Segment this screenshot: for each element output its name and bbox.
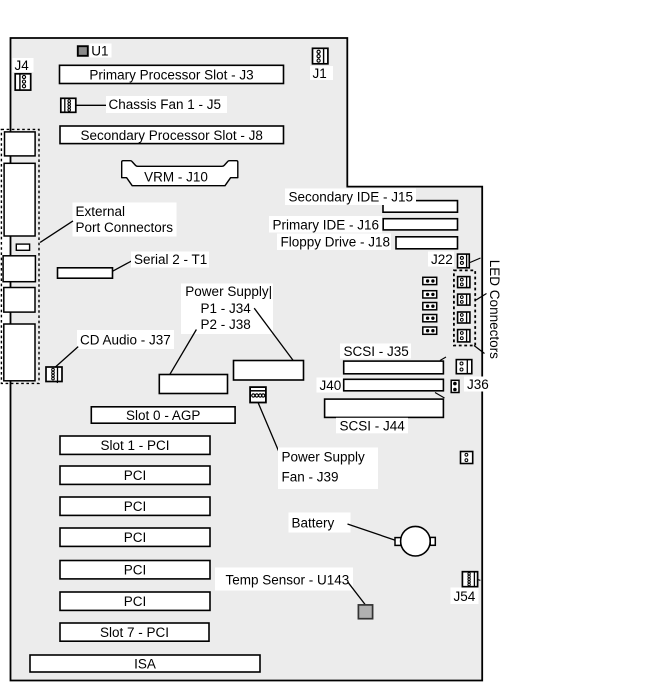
connector J18 xyxy=(396,237,458,249)
label Chassis Fan 1 - J5 xyxy=(106,96,227,113)
leader line J22 xyxy=(470,258,481,263)
label Battery xyxy=(289,513,351,533)
external port connectors dashed box xyxy=(1,129,39,383)
svg-text:Primary IDE - J16: Primary IDE - J16 xyxy=(273,217,380,232)
connector above J36 xyxy=(456,360,472,374)
connector J37 cd audio xyxy=(46,367,62,383)
leader line P2 xyxy=(254,308,293,360)
LED connector 1 xyxy=(458,277,470,288)
temp sensor U143 xyxy=(358,605,372,619)
svg-text:Primary Processor Slot - J3: Primary Processor Slot - J3 xyxy=(89,67,253,82)
battery right tab xyxy=(430,537,435,545)
connector J35 xyxy=(344,361,444,374)
svg-text:P2 - J38: P2 - J38 xyxy=(201,317,251,332)
connector J4 xyxy=(15,74,31,90)
leader line J39 xyxy=(258,402,281,456)
connector J40 xyxy=(344,379,444,391)
label J40 xyxy=(317,378,344,394)
external port box 3 xyxy=(3,256,35,282)
svg-text:LED Connectors: LED Connectors xyxy=(487,260,502,359)
LED connector 4 xyxy=(458,330,470,342)
svg-text:J40: J40 xyxy=(320,378,342,393)
LED connectors dashed box xyxy=(454,270,475,345)
motherboard outline xyxy=(11,38,483,681)
svg-text:Slot 0 - AGP: Slot 0 - AGP xyxy=(126,408,200,423)
slot 3 PCI xyxy=(60,497,210,515)
leader line J5 xyxy=(76,104,108,106)
chip U1 xyxy=(78,46,88,56)
external port box 5 xyxy=(4,324,35,381)
jumper 1 xyxy=(423,277,437,284)
slot 5 PCI xyxy=(60,561,210,579)
svg-text:SCSI - J44: SCSI - J44 xyxy=(340,418,406,433)
connector J15 xyxy=(383,201,458,213)
serial 2 T1 rectangle xyxy=(58,268,113,278)
svg-text:PCI: PCI xyxy=(124,530,147,545)
connector J1 xyxy=(313,48,328,64)
label Power Supply Fan - J39 xyxy=(278,448,378,490)
label Floppy Drive - J18 xyxy=(277,234,391,251)
svg-text:Port Connectors: Port Connectors xyxy=(76,220,174,235)
label SCSI - J35 xyxy=(340,344,411,360)
power supply fan connector J39 xyxy=(250,387,266,402)
leader line LED upper xyxy=(476,294,487,301)
leader tick J35 xyxy=(440,357,446,361)
svg-text:Secondary IDE - J15: Secondary IDE - J15 xyxy=(289,190,414,205)
external port box 4 xyxy=(4,288,35,313)
label J1 xyxy=(310,66,333,81)
slot 2 PCI xyxy=(60,466,210,484)
external port box 1 xyxy=(5,132,36,156)
svg-text:P1 - J34: P1 - J34 xyxy=(201,301,252,316)
connector J5 chassis fan xyxy=(61,98,76,112)
svg-text:J22: J22 xyxy=(431,252,453,267)
label J54 xyxy=(451,588,479,605)
connector J54 xyxy=(462,572,480,587)
svg-text:Power Supply: Power Supply xyxy=(282,449,366,464)
label Serial 2 - T1 xyxy=(131,252,209,268)
slot ISA xyxy=(30,655,260,672)
jumper 4 xyxy=(423,315,437,322)
svg-text:Temp Sensor - U143: Temp Sensor - U143 xyxy=(226,573,350,588)
svg-text:Power Supply|: Power Supply| xyxy=(185,284,272,299)
svg-text:PCI: PCI xyxy=(124,499,147,514)
leader line serial xyxy=(112,260,132,271)
slot 4 PCI xyxy=(60,528,210,546)
label Primary IDE - J16 xyxy=(269,216,382,233)
label Power Supply P1 P2 xyxy=(181,284,273,335)
svg-text:J1: J1 xyxy=(313,66,327,81)
svg-text:Floppy Drive - J18: Floppy Drive - J18 xyxy=(281,234,391,249)
slot 6 PCI xyxy=(60,592,210,610)
jumper 3 xyxy=(423,303,437,310)
label J4 xyxy=(13,58,34,73)
svg-text:SCSI - J35: SCSI - J35 xyxy=(344,344,409,359)
svg-text:J36: J36 xyxy=(467,377,489,392)
svg-text:Fan - J39: Fan - J39 xyxy=(282,469,339,484)
LED connector 2 xyxy=(458,294,470,305)
connector J16 xyxy=(383,219,457,230)
slot J3 primary processor xyxy=(60,65,284,83)
battery circle xyxy=(401,526,431,556)
svg-text:Secondary Processor Slot - J8: Secondary Processor Slot - J8 xyxy=(81,128,263,143)
svg-text:ISA: ISA xyxy=(134,656,156,671)
jumper 2 xyxy=(423,291,437,298)
svg-text:Serial 2 - T1: Serial 2 - T1 xyxy=(134,252,207,267)
svg-text:PCI: PCI xyxy=(124,468,147,483)
label J22 xyxy=(428,252,454,268)
svg-text:External: External xyxy=(76,204,126,219)
label External Port Connectors xyxy=(73,203,177,237)
power supply P2 connector J38 xyxy=(234,361,304,381)
svg-text:CD Audio - J37: CD Audio - J37 xyxy=(80,332,171,347)
connector J22 xyxy=(458,254,470,268)
svg-text:Slot 7 - PCI: Slot 7 - PCI xyxy=(100,625,169,640)
svg-text:Chassis Fan 1 - J5: Chassis Fan 1 - J5 xyxy=(109,97,222,112)
label CD Audio - J37 xyxy=(77,330,174,349)
external port box 2 xyxy=(4,163,35,236)
slot 7 PCI xyxy=(60,623,209,641)
svg-text:J54: J54 xyxy=(454,589,476,604)
leader line LED lower xyxy=(474,346,485,354)
leader line J37 xyxy=(55,347,78,367)
svg-text:PCI: PCI xyxy=(124,563,147,578)
label Secondary IDE - J15 xyxy=(285,189,416,206)
slot 1 PCI xyxy=(60,436,210,454)
battery left tab xyxy=(395,538,401,546)
connector unlabeled right xyxy=(461,452,473,464)
connector J44 xyxy=(325,399,444,417)
leader line external ports xyxy=(40,221,73,243)
svg-text:J4: J4 xyxy=(15,58,30,73)
svg-text:Battery: Battery xyxy=(292,516,335,531)
jumper 5 xyxy=(423,327,437,334)
VRM slot J10 xyxy=(122,161,238,186)
slot J8 secondary processor xyxy=(60,126,284,144)
svg-text:VRM - J10: VRM - J10 xyxy=(144,169,208,184)
LED connector 3 xyxy=(458,312,470,323)
label J36 xyxy=(464,377,491,393)
connector J36 xyxy=(451,380,459,392)
leader line P1 xyxy=(170,330,197,375)
leader tick J40 xyxy=(435,393,445,399)
slot 0 AGP xyxy=(91,407,235,423)
svg-text:Slot 1 - PCI: Slot 1 - PCI xyxy=(100,438,169,453)
svg-text:U1: U1 xyxy=(91,43,108,58)
leader line temp sensor xyxy=(348,582,366,605)
svg-text:PCI: PCI xyxy=(124,594,147,609)
label Temp Sensor - U143 xyxy=(215,568,353,591)
power supply P1 connector J34 xyxy=(159,375,227,394)
external port small box xyxy=(16,244,29,250)
label SCSI - J44 xyxy=(336,418,408,434)
leader line battery xyxy=(348,524,397,541)
